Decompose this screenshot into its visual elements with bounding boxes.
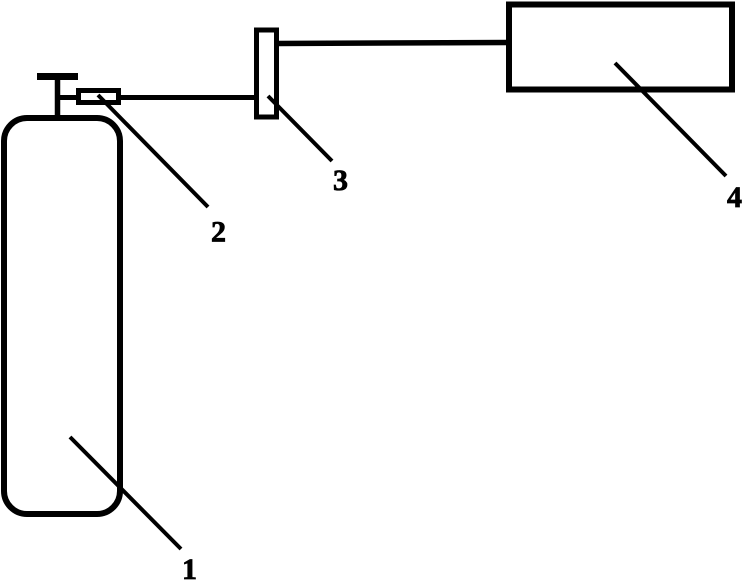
svg-text:3: 3 bbox=[333, 164, 348, 197]
svg-text:4: 4 bbox=[727, 181, 742, 214]
svg-text:2: 2 bbox=[211, 216, 226, 249]
svg-text:1: 1 bbox=[182, 553, 197, 580]
